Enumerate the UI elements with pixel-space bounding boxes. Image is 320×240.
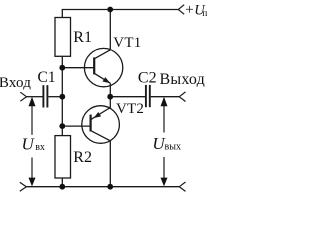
terminal arrow input [20,92,26,101]
resistor R1 [55,18,71,57]
svg-text:U: U [22,134,36,153]
capacitor C1 [43,85,47,107]
dimension arrowhead Uvyx down [161,178,168,187]
terminal arrow bottom right [179,182,185,191]
node dot input C1 [59,94,65,100]
svg-text:VT2: VT2 [116,101,144,117]
dimension arrow Uvx line upper [31,103,33,135]
node dot output emitters [107,94,113,100]
resistor R2 [55,136,71,178]
svg-text:Вход: Вход [0,75,31,91]
svg-text:R1: R1 [73,29,92,46]
wire left column R1-bottom to R2-top [61,56,63,135]
terminal arrow bottom left [20,182,27,191]
dimension arrowhead Uvx up [29,97,36,107]
wire C1 to node A [48,96,62,98]
svg-text:VT1: VT1 [113,35,141,51]
dimension arrow Uvx line lower [31,158,33,181]
wire top rail +U [62,9,179,11]
dimension arrow Uvyx line lower [163,157,165,180]
transistor VT1 (NPN) [84,10,122,97]
svg-text:R2: R2 [73,149,92,166]
transistor VT2 (PNP) [82,97,120,187]
wire VT2 base [62,125,90,127]
dimension arrow Uvyx line upper [163,103,165,133]
dimension arrowhead Uvx down [29,178,36,187]
svg-text:п: п [202,9,207,19]
node dot collector VT1 top rail [107,7,113,13]
svg-text:вых: вых [165,141,181,152]
wire output node to C2 [110,96,145,98]
dimension arrowhead Uvyx up [161,97,168,107]
wire VT1 base [62,67,94,69]
node dot VT2 collector bottom rail [107,184,113,190]
svg-text:C2: C2 [138,70,157,87]
node dot R2 bottom rail [59,184,65,190]
wire input to C1 [27,96,43,98]
svg-text:+: + [185,2,193,18]
capacitor C2 [146,85,150,107]
wire R1 top lead [61,10,63,18]
node dot R1/VT1 base [59,65,65,71]
svg-text:Выход: Выход [160,71,206,88]
wire R2 bottom lead [61,178,63,187]
svg-text:вх: вх [35,142,45,153]
terminal arrow output [179,92,185,102]
terminal arrow +Un [178,5,184,15]
wire C2 to output terminal [151,96,180,98]
svg-text:C1: C1 [38,69,56,86]
wire bottom rail [26,186,179,188]
node dot VT2 base [59,123,65,129]
